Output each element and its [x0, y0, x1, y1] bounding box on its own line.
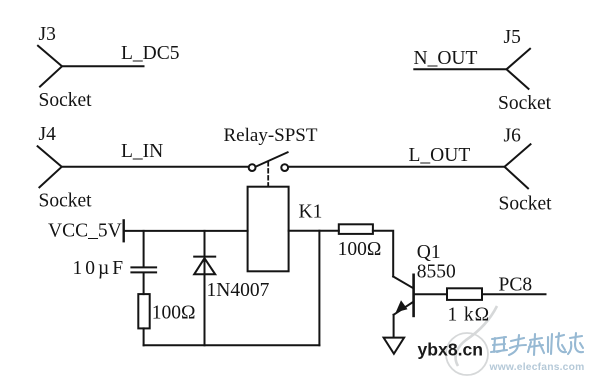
connector J5	[507, 49, 531, 89]
svg-text:100Ω: 100Ω	[152, 303, 196, 324]
wire net L_OUT	[288, 166, 504, 168]
watermark www.elecfans.com	[489, 362, 585, 373]
transistor Q1 collector lead	[393, 277, 412, 288]
svg-text:N_OUT: N_OUT	[414, 48, 478, 69]
transistor Q1 base bar	[412, 275, 415, 316]
wire net L_IN	[62, 166, 249, 168]
diode D 1N4007 triangle	[194, 258, 215, 274]
connector J4	[38, 146, 62, 187]
resistor 100R (base drive) body	[339, 224, 373, 234]
svg-text:ybx8.cn: ybx8.cn	[418, 340, 484, 360]
svg-text:1 kΩ: 1 kΩ	[448, 304, 490, 325]
svg-text:VCC_5V: VCC_5V	[48, 221, 122, 242]
wire net PC8	[482, 293, 546, 295]
power port VCC_5V bar	[122, 220, 124, 241]
watermark ybx8.cn	[418, 340, 484, 360]
connector J6	[505, 144, 531, 188]
wire cap branch upper	[143, 231, 145, 267]
wire cap to resistor	[143, 273, 145, 294]
wire resistor to collector corner	[373, 231, 393, 277]
svg-text:J5: J5	[504, 27, 521, 48]
svg-text:K1: K1	[299, 202, 323, 223]
wire bottom rail	[144, 344, 320, 346]
relay coil K1 box	[248, 187, 289, 272]
svg-text:Socket: Socket	[39, 191, 93, 212]
wire emitter to ground	[393, 315, 395, 338]
svg-text:www.elecfans.com: www.elecfans.com	[489, 362, 585, 373]
resistor 1k body	[447, 288, 482, 300]
svg-text:Socket: Socket	[498, 93, 552, 114]
wire diode branch	[204, 231, 206, 345]
dashed actuator link	[267, 162, 269, 187]
transistor Q1 emitter lead	[394, 302, 413, 315]
svg-text:Relay-SPST: Relay-SPST	[224, 125, 318, 146]
wire resistor to bottom rail	[143, 328, 145, 345]
svg-text:L_DC5: L_DC5	[121, 43, 180, 64]
svg-text:1N4007: 1N4007	[207, 280, 270, 301]
capacitor C 10uF plates	[131, 267, 156, 272]
wire base to resistor 1k	[415, 293, 447, 295]
svg-text:8550: 8550	[417, 262, 456, 283]
watermark elecfans logo strokes	[491, 333, 583, 355]
transistor Q1 emitter arrow	[396, 300, 408, 312]
svg-text:100Ω: 100Ω	[338, 239, 382, 260]
resistor 100R (snubber) body	[138, 294, 149, 328]
svg-text:J4: J4	[39, 124, 57, 145]
switch SW Relay-SPST left contact	[249, 164, 256, 171]
wire net L_DC5	[62, 65, 144, 67]
diode D 1N4007 cathode bar	[194, 256, 215, 258]
wire net N_OUT	[414, 68, 506, 70]
svg-text:J6: J6	[504, 125, 522, 146]
svg-text:Socket: Socket	[499, 193, 553, 214]
svg-text:L_IN: L_IN	[121, 141, 163, 162]
switch SW Relay-SPST blade	[256, 152, 288, 166]
wire VCC rail	[124, 230, 248, 232]
svg-text:10µF: 10µF	[73, 258, 127, 279]
wire junction down from K1 node	[318, 231, 320, 346]
watermark swirl logo	[446, 306, 497, 375]
svg-text:J3: J3	[39, 24, 56, 45]
wire K1 to resistor R-100	[289, 230, 339, 232]
svg-text:Q1: Q1	[417, 242, 441, 263]
connector J3	[38, 46, 62, 87]
switch SW Relay-SPST right contact	[281, 164, 288, 171]
svg-text:L_OUT: L_OUT	[409, 145, 471, 166]
svg-text:PC8: PC8	[499, 275, 533, 296]
svg-text:Socket: Socket	[39, 90, 93, 111]
ground symbol	[384, 338, 405, 354]
